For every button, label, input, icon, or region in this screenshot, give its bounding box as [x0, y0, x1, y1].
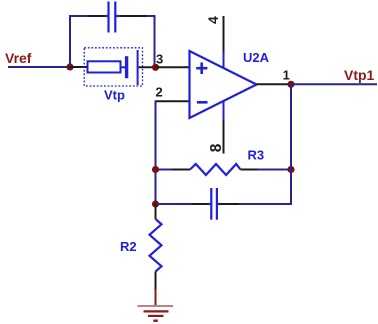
ground lead — [155, 290, 157, 306]
wire top feedback pin stub right (black) — [120, 15, 146, 17]
svg-text:2: 2 — [156, 84, 163, 99]
wire Vref junction to test point (black) — [70, 66, 88, 68]
op-amp plus symbol — [196, 63, 207, 75]
op-amp minus symbol — [197, 101, 208, 104]
node junction output — [287, 81, 294, 88]
wire R3 row left (blue) — [156, 169, 173, 171]
wire right riser of feedback loop — [154, 15, 156, 67]
wire pin 3 to op-amp non-inverting input (black) — [156, 66, 190, 68]
wire left vertical (inverting input to feedback nodes) — [155, 100, 157, 204]
svg-text:3: 3 — [156, 51, 163, 66]
node junction Vref/feedback — [66, 63, 73, 70]
resistor R2 zigzag — [150, 219, 162, 272]
ground symbol — [138, 306, 174, 321]
wire left riser of feedback loop — [69, 16, 71, 67]
resistor R2 pin stub top (black) — [155, 204, 157, 219]
resistor R3 pin stub left (black) — [172, 169, 190, 171]
wire capacitor row left (blue) — [156, 203, 192, 205]
wire op-amp output to node 1 (black) — [257, 83, 292, 85]
wire top feedback pin stub left (black) — [87, 15, 105, 17]
test point Vtp dashed enclosure — [84, 48, 142, 86]
svg-text:1: 1 — [283, 67, 290, 82]
wire R3 row right (blue) — [258, 169, 291, 171]
resistor R3 zigzag — [190, 164, 241, 175]
svg-text:Vtp1: Vtp1 — [344, 67, 375, 83]
node junction R3 left — [152, 166, 159, 173]
svg-text:R2: R2 — [120, 239, 137, 254]
node junction pin 3 — [152, 64, 159, 71]
resistor R2 pin stub bottom (black) — [155, 272, 157, 290]
svg-text:Vref: Vref — [5, 50, 32, 66]
capacitor feedback pin stub left (black) — [192, 203, 209, 205]
wire output to Vtp1 port — [291, 83, 377, 85]
test point Vtp body rectangle — [88, 61, 121, 72]
wire test point to pin 3 junction (black) — [139, 66, 156, 68]
wire pin 4 (black) — [223, 16, 225, 52]
node junction R3 right — [287, 166, 294, 173]
svg-text:U2A: U2A — [243, 50, 270, 65]
test point Vtp thick contact bar — [125, 56, 128, 78]
wire Vref input — [8, 66, 70, 68]
test point Vtp stub to contact bar — [121, 66, 126, 68]
test point Vtp outer contact line — [137, 50, 139, 85]
wire top feedback (right blue part) — [146, 15, 156, 17]
node junction capacitor row left — [152, 200, 159, 207]
capacitor feedback pin stub right (black) — [219, 203, 239, 205]
wire pin 2 to op-amp inverting input (black) — [156, 100, 190, 102]
wire pin 8 (black) — [223, 120, 225, 154]
op-amp pin 4 lead (blue stub) — [223, 51, 225, 68]
wire right vertical (output to feedback) — [290, 84, 292, 205]
wire capacitor row right (blue) — [239, 203, 291, 205]
svg-text:R3: R3 — [248, 148, 265, 163]
wire top feedback (left blue part) — [69, 15, 87, 17]
svg-text:Vtp: Vtp — [104, 88, 125, 103]
capacitor top feedback — [105, 2, 120, 33]
svg-text:8: 8 — [208, 143, 225, 152]
op-amp pin 8 lead (blue stub) — [223, 101, 225, 120]
capacitor feedback plates — [208, 188, 220, 220]
op-amp U2A triangle — [190, 51, 257, 118]
resistor R3 pin stub right (black) — [241, 169, 259, 171]
svg-text:4: 4 — [205, 16, 221, 24]
